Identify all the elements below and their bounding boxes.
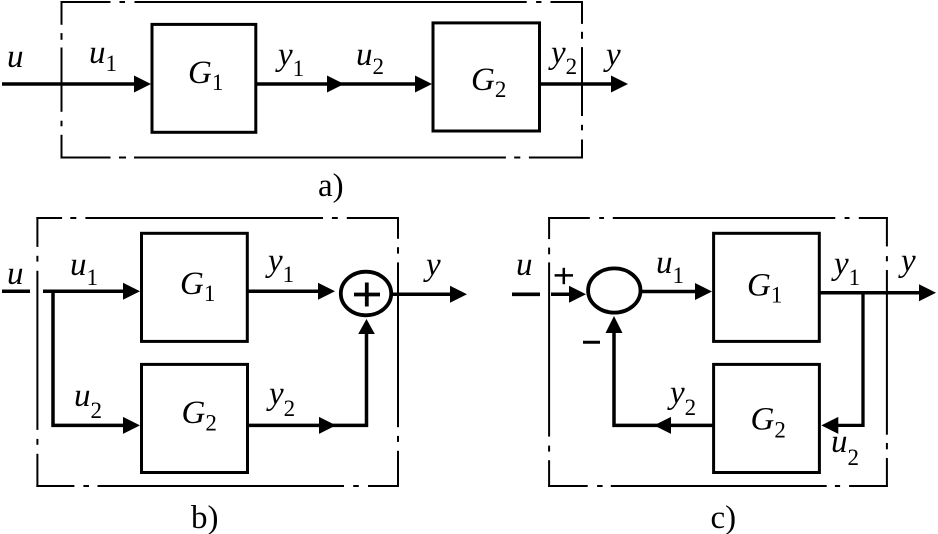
dash-dot boundary box c bbox=[548, 217, 888, 487]
wire output a bbox=[540, 82, 613, 86]
wire output b bbox=[391, 292, 451, 296]
block G2 a bbox=[433, 23, 540, 131]
wire u input b bbox=[43, 289, 125, 293]
wire u stub c bbox=[512, 292, 540, 296]
wire y1 to summer b bbox=[248, 289, 320, 293]
arrowhead output b bbox=[450, 286, 467, 303]
arrowhead mid wire a bbox=[327, 76, 344, 93]
svg-text:b): b) bbox=[191, 500, 219, 534]
block G2 b bbox=[142, 364, 248, 472]
wire u input a bbox=[2, 82, 136, 86]
arrowhead into G1 c bbox=[695, 283, 712, 300]
label plus c bbox=[555, 274, 573, 277]
summer circle b bbox=[341, 272, 391, 316]
arrowhead up into summer c bbox=[606, 316, 623, 333]
arrowhead mid feedback c bbox=[654, 417, 671, 434]
svg-text:y: y bbox=[603, 37, 621, 73]
plus sign in summer b bbox=[354, 293, 380, 297]
arrowhead mid y2 b bbox=[319, 417, 336, 434]
arrowhead into G1 b bbox=[123, 283, 140, 300]
arrowhead up into summer b bbox=[358, 319, 375, 334]
svg-text:y: y bbox=[423, 247, 441, 283]
arrowhead into G2 c bbox=[821, 417, 838, 434]
arrowhead into summer c bbox=[569, 286, 586, 303]
summer circle c bbox=[588, 268, 640, 312]
wire G2 to riser c bbox=[613, 424, 715, 428]
wire u stub b bbox=[2, 289, 30, 293]
svg-text:y: y bbox=[898, 243, 916, 279]
dash-dot boundary box b bbox=[36, 217, 399, 487]
wire feedback branch down c bbox=[838, 293, 863, 426]
block G2 c bbox=[714, 364, 820, 472]
arrowhead output c bbox=[919, 284, 936, 301]
svg-text:c): c) bbox=[711, 500, 737, 534]
svg-text:u: u bbox=[516, 247, 533, 283]
arrowhead into G1 a bbox=[134, 76, 151, 93]
wire G1 to G2 a bbox=[256, 82, 417, 86]
arrowhead output a bbox=[611, 76, 628, 93]
wire u input c bbox=[551, 293, 570, 297]
block G1 c bbox=[714, 233, 820, 341]
svg-text:a): a) bbox=[318, 168, 344, 204]
wire riser to summer c bbox=[612, 330, 616, 427]
block G1 b bbox=[142, 233, 248, 341]
wire branch down b bbox=[53, 291, 125, 425]
arrowhead into G2 a bbox=[415, 76, 432, 93]
dash-dot boundary box a bbox=[61, 1, 584, 159]
wire y2 right b bbox=[248, 424, 368, 428]
arrowhead into G2 b bbox=[123, 417, 140, 434]
wire summer to G1 c bbox=[641, 290, 696, 294]
block G1 a bbox=[152, 24, 256, 132]
svg-text:u: u bbox=[7, 39, 24, 75]
wire riser to summer b bbox=[365, 330, 369, 427]
wire output c bbox=[819, 291, 920, 295]
label minus c bbox=[583, 341, 600, 344]
arrowhead into summer b bbox=[318, 283, 335, 300]
svg-text:u: u bbox=[7, 256, 24, 292]
